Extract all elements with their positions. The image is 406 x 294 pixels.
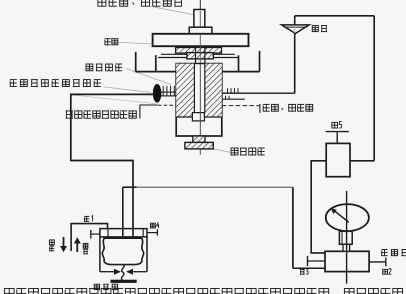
piston cylinder block [176,64,222,136]
leader fei-lun [118,42,152,44]
label: fei-lun (flywheel) [105,39,118,45]
piston label tick [259,104,261,113]
knurled nut lower [185,142,213,149]
leader to rod [150,6,193,14]
valve V5 tee [326,132,349,144]
label: fa1 (valve 1) [84,216,92,222]
pipe B right drop [293,187,325,268]
oil line to cup [222,92,295,94]
label: fa5 (valve 5) [332,122,342,128]
label: tong-da-qi (to atmosphere) [381,250,406,256]
label: ce-liang-fu-ya-shi-fei-lun-wei-zhi [10,80,101,87]
load rod (cheng zhong gan) [194,10,205,28]
caption bottom run2 (cut) [344,289,402,294]
label: gun-hua-luo-mu (lower) [231,148,265,155]
base bar [111,280,137,283]
gauge axis line [346,191,348,284]
working position line bracket [140,105,158,119]
label: huo-sai/huo-sai-tong [263,104,313,111]
label: fa2 (valve 2) [383,269,392,275]
pump top plate [100,229,147,237]
label: gong-zuo-wei-zhi-zhi-shi-hong-xian [66,111,137,118]
frame tie line [158,57,239,59]
gauge stem lower [343,244,350,251]
fine adjust squiggle [121,265,124,280]
pump side walls [100,237,147,272]
label: fa3 (valve 3) [300,269,308,275]
oil cup funnel [282,25,310,34]
working position dashes [158,104,176,106]
valve V2 line+tick [369,258,386,267]
cylinder axis [199,64,201,155]
wire pump to block (pipe B) [123,187,137,236]
knurl ticks right lower [226,96,230,100]
top wire to right [295,15,375,17]
leader lock handle [126,69,171,85]
pump pipes into plate [123,229,133,237]
handwheel knob (black ellipse) [153,84,162,103]
wire knob to pump (pipe A) [71,94,155,236]
arrow down (evacuate) [60,237,67,252]
wire V5 right [350,160,374,162]
pump bottom right + arrow [126,269,147,275]
valve V1 tick+stub [91,230,100,239]
external port pipe [71,224,107,251]
block body [325,251,369,271]
label: you-bei (oil cup) [312,26,327,32]
arrow up (pressurize) [74,237,81,252]
frame right outer column [222,51,260,72]
leader lower nut [214,149,230,152]
label: wei-tiao-qi (fine adjuster) [94,284,117,289]
faint diagonal leader [71,95,158,104]
pipe B gray horizontal [137,186,293,188]
label: jia-ya (pressurize) [83,243,88,254]
label: cheng-zhong-gan/gun-hua-luo-mu (top) [98,0,182,6]
shaft knurl ticks left [163,86,174,97]
knurled nut upper [189,27,212,34]
rod lines through gland [196,34,205,64]
knurl ticks right upper [228,88,239,93]
caption bottom run1 (cut) [4,289,328,294]
label: chou-kong (evacuate) [49,240,54,251]
axis line top [199,0,201,10]
valve V3 tick+line [308,256,326,266]
flywheel platform [153,34,249,46]
label: fa4 (valve 4) [151,222,160,228]
wire V5 left drop [311,161,326,253]
frame right inner column [238,55,240,71]
neck below cylinder [193,136,205,142]
gland nut mid [187,53,213,59]
oil cup riser pipe [294,16,296,93]
gauge needle [331,208,349,222]
shaft left double line [161,92,176,96]
gauge dial [326,204,369,231]
packing hatched bar [161,48,235,55]
phantom dash right of cylinder [222,105,259,107]
right drop wire [373,16,375,161]
leader neg-pressure [104,87,151,93]
pump bottom left + arrow [100,269,121,275]
stub line right lower [222,98,245,100]
valve V5 body [326,143,350,176]
valve V4 stub+tick [147,229,157,235]
frame left outer column [136,52,177,72]
gauge stem upper [339,231,352,244]
label: suo-jin-shou-bing (lock handle) [86,64,122,71]
frame left inner column [155,55,157,72]
bellows body [102,238,143,264]
